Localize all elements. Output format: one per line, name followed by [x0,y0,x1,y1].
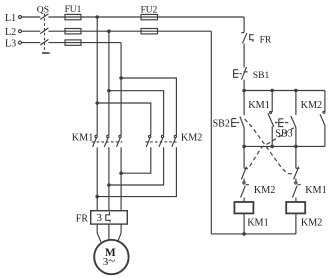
wire KM1 pole3 bottom to FR [120,147,122,210]
contactor KM2 NC interlock contact [241,179,276,203]
motor M 3~ [94,240,128,274]
wire KM2 pole3 bottom crossover [97,147,176,196]
node phase B branch to KM2 [107,89,111,93]
wire vertical phase C to KM1 pole3 [120,43,122,135]
svg-text:3: 3 [97,212,103,224]
svg-text:KM2: KM2 [254,185,276,196]
svg-text:KM2: KM2 [301,100,323,111]
fuse FU2 [141,5,158,34]
wire vertical phase A to KM1 pole1 [96,17,98,135]
wire L2 from QS to corner [48,30,211,32]
svg-text:SB2: SB2 [213,119,230,130]
fuse FU1 [65,5,82,45]
svg-text:FU1: FU1 [65,5,82,15]
interlock dashed link SB2 to right NC [245,119,294,174]
node mid SB2 branch [242,145,246,149]
wire control bottom line [211,233,296,235]
wire FR contact to SB1 [243,44,245,68]
svg-text:FR: FR [76,214,89,225]
wire vertical phase B to KM1 pole2 [108,31,110,135]
svg-text:L1: L1 [5,13,16,24]
wire KM2 coil to bottom [295,213,297,234]
thermal relay FR NC contact [241,33,272,46]
wire L2 from terminal to QS [22,30,41,32]
node on L2 feeding KM1 pole 2 [107,29,111,33]
wire L3 from terminal to QS [22,42,41,44]
wire phase C branch to KM2 pole3 [121,78,176,135]
wire phase B branch to KM2 pole2 [109,91,164,135]
svg-text:KM2: KM2 [181,132,203,143]
pushbutton SB3 NC interlock contact (left branch) [241,146,247,179]
interlock dashed link SB3 to left NC [247,128,294,169]
wire FR to motor mid [108,224,110,240]
node crossover C [119,171,123,175]
svg-text:L2: L2 [5,27,16,38]
coil KM1 [234,202,268,228]
svg-text:~: ~ [108,252,115,267]
contactor KM1 NC interlock contact [292,179,326,203]
pushbutton SB2 NC interlock contact (right branch) [294,146,300,179]
contactor KM2 auxiliary NO contact [301,91,326,147]
contactor KM1 auxiliary NO contact [248,91,274,147]
node bus KM1 aux [270,89,274,93]
node mid KM1 aux [270,145,274,149]
svg-text:SB3: SB3 [275,129,292,140]
node bottom [242,232,246,236]
svg-text:KM1: KM1 [248,100,270,111]
pushbutton SB3 (reverse, NO) [275,91,296,147]
node phase C branch to KM2 [119,76,123,80]
wire phase A branch to KM2 pole1 [97,103,151,135]
wire L2 return down [210,31,212,234]
pushbutton SB2 (forward, NO) [213,91,245,147]
node bus SB3 [294,89,298,93]
wire L1 from terminal to QS [22,16,41,18]
terminal L1 [5,13,22,24]
wire KM1 pole2 bottom to FR [108,147,110,210]
node phase A branch to KM2 [95,101,99,105]
wire KM1 coil to bottom [243,213,245,234]
wire control top bus [244,90,325,92]
svg-text:KM1: KM1 [72,132,94,143]
contactor KM1 main contacts [72,132,123,147]
wire L1 from QS to FU2 right end [48,16,244,18]
svg-text:SB1: SB1 [253,70,270,81]
wire KM1 pole1 bottom to FR [96,147,98,210]
thermal relay FR heater box [76,211,127,225]
svg-text:KM1: KM1 [305,185,327,196]
switch QS [37,5,50,54]
node bus left [242,89,246,93]
wire L1 corner down to control [243,17,245,33]
terminal L3 [5,38,22,49]
svg-text:KM2: KM2 [301,217,323,228]
wire KM2 pole2 bottom crossover [109,147,164,185]
contactor KM2 main contacts [145,132,202,147]
wire control mid line [244,145,325,147]
svg-text:KM1: KM1 [247,217,269,228]
wire KM2 pole1 bottom crossover [121,147,151,173]
node crossover A [95,195,99,199]
svg-text:FR: FR [260,34,272,45]
node on L1 feeding KM1 pole 1 [95,15,99,19]
coil KM2 [286,202,322,228]
node crossover B [107,183,111,187]
svg-text:L3: L3 [5,38,16,49]
wire L3 from QS to corner [48,42,121,44]
wire SB1 to bus [243,80,245,91]
pushbutton SB1 (stop, NC) [234,67,270,81]
node mid SB3 branch [294,145,298,149]
wire FR to motor right [118,224,122,242]
terminal L2 [5,27,22,38]
wire FR to motor left [97,224,101,242]
